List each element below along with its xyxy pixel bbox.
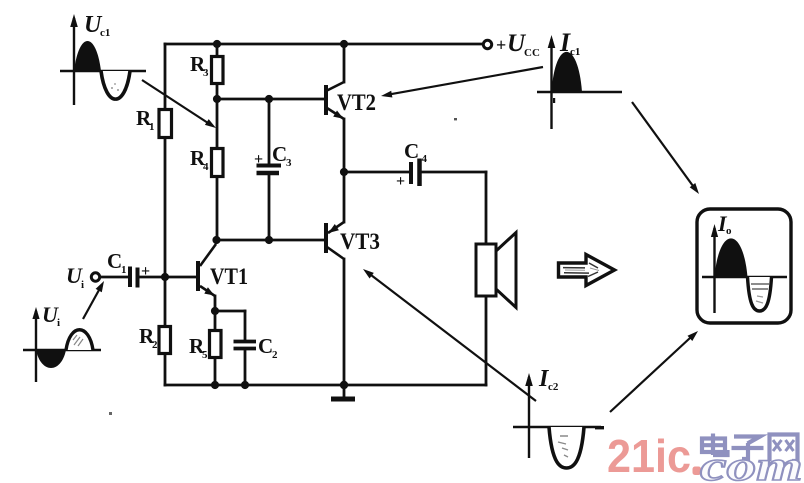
waveform Ic1 (top-right, positive half pulse) bbox=[537, 35, 622, 129]
node C2 / bottom rail bbox=[241, 381, 249, 389]
wire VT2 collector to top rail bbox=[343, 44, 346, 82]
resistor R4 bbox=[212, 149, 224, 177]
svg-text:c1: c1 bbox=[570, 46, 580, 58]
wire C3 top stem bbox=[268, 99, 271, 163]
wire emitter node to R5 bbox=[214, 311, 217, 331]
label C3 bbox=[272, 142, 292, 169]
svg-text:4: 4 bbox=[203, 161, 209, 173]
node D (R4/VT1 collector/VT3 base) bbox=[212, 236, 220, 244]
svg-text:+: + bbox=[254, 151, 263, 168]
block arrow (output direction) bbox=[559, 255, 615, 286]
terminal Ui input bbox=[91, 273, 99, 281]
wire node B to VT2 base bbox=[217, 98, 324, 101]
wire C4 to speaker corner bbox=[421, 171, 486, 174]
svg-text:1: 1 bbox=[149, 121, 155, 133]
node VT1 emitter bbox=[211, 307, 219, 315]
node ground junction bbox=[340, 381, 348, 389]
svg-text:VT3: VT3 bbox=[340, 229, 380, 254]
wire R2 to bottom rail bbox=[164, 353, 167, 385]
wire R3 to node B bbox=[216, 83, 219, 99]
transistor VT3 (PNP) bbox=[324, 222, 344, 259]
wire VT1 emitter node drop bbox=[214, 296, 217, 311]
node top rail / R3 junction bbox=[213, 40, 221, 48]
svg-text:+: + bbox=[496, 35, 506, 55]
svg-text:2: 2 bbox=[152, 339, 158, 351]
waveform Uc1 (top-left, positive then negative half) bbox=[60, 14, 146, 105]
wire R4 to node D bbox=[216, 176, 219, 240]
wire C1 to base node bbox=[139, 276, 165, 279]
svg-text:21ic: 21ic bbox=[607, 430, 691, 482]
resistor R2 bbox=[159, 327, 171, 354]
svg-text:C: C bbox=[404, 139, 419, 163]
wire node D to VT3 base bbox=[216, 239, 324, 242]
label Io bbox=[717, 211, 732, 237]
stray scan mark near logo bbox=[595, 426, 604, 429]
capacitor C1 (input coupling, vertical plates) bbox=[130, 267, 138, 288]
node VT1 base / divider bbox=[161, 273, 169, 281]
svg-text:i: i bbox=[57, 317, 60, 329]
node top rail / VT2 collector junction bbox=[340, 40, 348, 48]
label +Ucc supply bbox=[496, 30, 540, 59]
node B (R3/R4/VT2 base) bbox=[213, 95, 221, 103]
wire VT2 emitter to output node bbox=[343, 119, 346, 172]
terminal +Ucc bbox=[483, 40, 491, 48]
svg-text:c2: c2 bbox=[548, 381, 559, 393]
node output (VT2 emitter/VT3 emitter/C4) bbox=[340, 168, 348, 176]
arrow Ui to input terminal bbox=[83, 281, 104, 319]
svg-text:5: 5 bbox=[202, 349, 208, 361]
label C1 bbox=[107, 249, 127, 276]
wire top rail to R3 bbox=[216, 44, 219, 57]
node C3 bottom junction bbox=[265, 236, 273, 244]
logo character dian bbox=[702, 434, 728, 456]
wire emitter node to C2 branch bbox=[215, 310, 245, 313]
wire C3 bottom stem bbox=[268, 175, 271, 240]
wire output node to VT3 emitter bbox=[343, 172, 346, 222]
label R3 bbox=[190, 52, 209, 79]
wire base node to VT1 base bbox=[165, 276, 196, 279]
logo com text bbox=[700, 443, 803, 483]
wire node B to R4 bbox=[216, 99, 219, 149]
label Ic2 bbox=[538, 366, 559, 393]
capacitor C3 (bootstrap, horizontal plates) bbox=[257, 166, 282, 174]
svg-text:VT1: VT1 bbox=[210, 264, 248, 289]
label Uc1 bbox=[84, 12, 110, 39]
wire C2 to bottom rail bbox=[244, 350, 247, 385]
label Ui input bbox=[66, 263, 84, 291]
svg-text:com: com bbox=[700, 443, 803, 483]
waveform Ic2 (bottom, negative half pulse) bbox=[513, 373, 601, 468]
logo character zi bbox=[732, 437, 764, 460]
label R5 bbox=[189, 334, 208, 361]
waveform Ui (bottom-left, negative then positive half) bbox=[23, 307, 101, 382]
svg-text:2: 2 bbox=[272, 349, 278, 361]
label R2 bbox=[139, 324, 158, 351]
wire speaker to bottom rail bbox=[485, 296, 488, 385]
svg-text:C: C bbox=[272, 142, 287, 166]
node C3 top junction bbox=[265, 95, 273, 103]
node R5 / bottom rail bbox=[211, 381, 219, 389]
capacitor C4 (output coupling, vertical plates) bbox=[411, 159, 420, 187]
stray scan dot near VT2 bbox=[454, 118, 457, 120]
wire input terminal to C1 bbox=[100, 276, 128, 279]
arrow Ic2 to Io box bbox=[610, 331, 698, 412]
resistor R1 bbox=[159, 110, 172, 138]
wire output node to C4 bbox=[344, 171, 408, 174]
speaker LS bbox=[476, 233, 516, 308]
svg-text:1: 1 bbox=[121, 264, 127, 276]
wire down to speaker bbox=[485, 172, 488, 244]
resistor R3 bbox=[212, 57, 224, 84]
wire bottom ground rail bbox=[165, 384, 486, 387]
svg-text:4: 4 bbox=[422, 153, 428, 165]
arrow Ic2 to VT3 bbox=[363, 269, 536, 401]
svg-text:3: 3 bbox=[286, 157, 292, 169]
svg-text:c1: c1 bbox=[100, 27, 110, 39]
ground bbox=[331, 385, 355, 402]
transistor VT2 (NPN) bbox=[324, 82, 344, 119]
wire C2 branch down bbox=[244, 311, 247, 340]
svg-text:+: + bbox=[141, 263, 150, 280]
rounded box for Io waveform bbox=[697, 209, 791, 323]
logo dot bbox=[693, 467, 702, 476]
svg-text:VT2: VT2 bbox=[337, 90, 376, 115]
wire left rail middle (R1 to base node) bbox=[164, 137, 167, 277]
waveform Io (full sine inside box) bbox=[702, 224, 787, 313]
svg-text:3: 3 bbox=[203, 67, 209, 79]
capacitor C2 (emitter bypass, horizontal plates) bbox=[234, 342, 257, 349]
label C2 bbox=[258, 334, 278, 361]
label Ui axis bbox=[42, 302, 60, 329]
svg-text:CC: CC bbox=[524, 47, 540, 59]
svg-text:i: i bbox=[81, 279, 84, 291]
arrow Uc1 to collector wire bbox=[142, 80, 216, 128]
logo character wang bbox=[770, 435, 798, 462]
svg-text:C: C bbox=[107, 249, 122, 273]
svg-text:C: C bbox=[258, 334, 273, 358]
resistor R5 bbox=[210, 331, 222, 358]
wire top supply rail bbox=[165, 43, 483, 46]
arrow Ic1 to VT2 bbox=[381, 67, 543, 98]
label C4 bbox=[404, 139, 428, 165]
wire VT3 collector down to ground node bbox=[343, 259, 346, 385]
wire R5 to bottom rail bbox=[214, 357, 217, 385]
label R1 bbox=[136, 106, 155, 133]
wire base node to R2 bbox=[164, 277, 167, 327]
transistor VT1 (NPN) bbox=[196, 240, 216, 296]
arrow Ic1 to Io box bbox=[632, 102, 699, 194]
label Ic1 bbox=[559, 28, 580, 58]
svg-text:o: o bbox=[726, 225, 732, 237]
stray scan dot lower left bbox=[109, 412, 112, 415]
wire left rail upper (to R1) bbox=[164, 44, 167, 110]
svg-text:+: + bbox=[396, 173, 405, 190]
label R4 bbox=[190, 146, 209, 173]
